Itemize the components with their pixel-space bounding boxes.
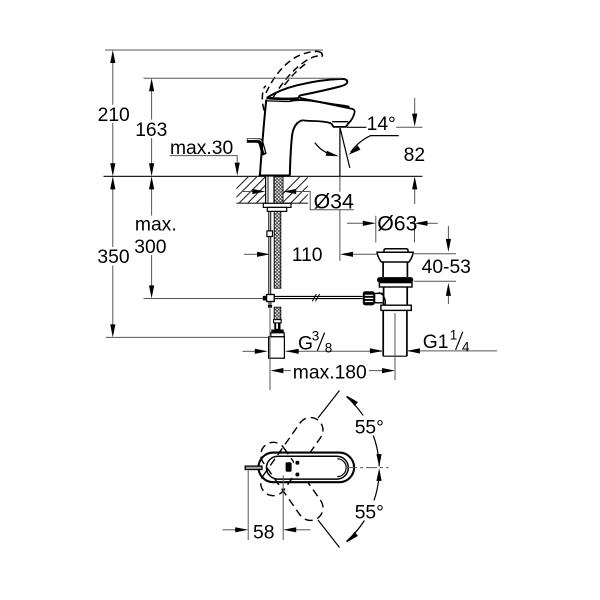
spout top edge xyxy=(290,100,351,109)
handle plan outline (solid, white fill) xyxy=(259,453,355,483)
extension line top of raised handle (210) xyxy=(105,49,323,51)
hose nut white xyxy=(271,333,284,337)
inner right cap second line xyxy=(337,459,346,477)
pop-up actuator bracket behind faucet xyxy=(247,138,267,155)
drain ball-joint stem xyxy=(375,293,384,302)
svg-text:55°: 55° xyxy=(355,418,384,439)
braided flex hose upper xyxy=(274,211,281,288)
dim 40-53 extension lines xyxy=(413,254,456,282)
drain pop-up waste: top cap xyxy=(384,249,408,252)
hose fitting dark section xyxy=(274,323,280,330)
svg-text:350: 350 xyxy=(97,247,129,268)
dashed handle swung down 55deg xyxy=(256,437,328,525)
water stream vertical reference line xyxy=(339,128,341,176)
extension line aerator level xyxy=(396,126,423,128)
spout underside xyxy=(302,120,331,123)
pop-up rod vertical xyxy=(269,211,271,295)
dashed handle swung up 55deg xyxy=(256,413,328,501)
55deg arc lower xyxy=(346,472,379,542)
handle plan inner outline xyxy=(266,456,348,479)
svg-text:55°: 55° xyxy=(355,503,384,524)
dim 210 line xyxy=(112,62,114,164)
faucet body left edge xyxy=(260,100,266,176)
threaded shank (cross-hatched) through counter xyxy=(274,176,283,204)
drain body walls xyxy=(384,287,408,305)
pop-up rod stem (plan) xyxy=(245,466,262,469)
faucet body right edge xyxy=(290,120,303,175)
G3/8 threaded end xyxy=(269,337,285,358)
hose fitting white band xyxy=(274,320,282,323)
dim 40-53 arrows xyxy=(447,226,449,239)
dim 82: lower arrow xyxy=(414,189,416,204)
linkage junction block xyxy=(267,295,275,302)
counter top line xyxy=(104,175,423,177)
dim 350 line xyxy=(112,188,114,326)
drain neck walls xyxy=(383,262,407,277)
svg-text:58: 58 xyxy=(253,522,274,543)
extension line top of handle (163) xyxy=(144,77,342,79)
counter bottom line xyxy=(237,202,308,204)
lever handle raised (dashed) xyxy=(262,51,322,110)
svg-text:110: 110 xyxy=(292,245,323,266)
horizontal linkage rod xyxy=(264,296,363,298)
svg-text:82: 82 xyxy=(404,145,425,166)
label 55deg lower xyxy=(353,501,389,521)
dim Ø63 arrows xyxy=(347,222,363,224)
dim 82: upper arrow xyxy=(414,98,416,114)
svg-text:max.180: max.180 xyxy=(293,362,367,383)
label 55deg upper xyxy=(353,416,389,436)
dim 110 arrows xyxy=(244,253,257,255)
lever handle (solid, closed position) xyxy=(267,79,349,107)
water stream line below counter (extension) xyxy=(339,176,341,260)
braided flex hose lower xyxy=(274,307,281,319)
svg-text:Ø63: Ø63 xyxy=(377,211,417,235)
svg-text:163: 163 xyxy=(135,120,167,141)
counter cross-section hatching xyxy=(220,175,336,205)
handle slot mark (black) xyxy=(286,462,292,472)
rod break ticks xyxy=(312,294,319,301)
svg-text:max.: max. xyxy=(135,214,177,235)
shared thread dimension line G3/8 G1 1/4 xyxy=(243,350,256,352)
svg-text:1: 1 xyxy=(450,328,458,343)
faucet centerline extension (max.180 left) xyxy=(269,306,271,390)
label Ø34 xyxy=(313,192,354,209)
svg-text:14°: 14° xyxy=(367,114,396,135)
pop-up rod coupling nub xyxy=(267,231,273,237)
55deg ray upper xyxy=(318,391,340,419)
extension line at G3/8 level (350 bottom) xyxy=(106,336,269,338)
indicator dots xyxy=(295,461,299,465)
drain collar xyxy=(381,305,411,310)
14deg leader from label with arrow xyxy=(351,136,399,153)
aerator xyxy=(331,123,348,127)
faucet base xyxy=(259,174,291,176)
dim 58 arrows xyxy=(223,529,236,531)
leader from aerator to 14deg label xyxy=(347,126,366,128)
faucet silhouette (white fill) xyxy=(260,79,355,176)
drain flange xyxy=(377,252,413,262)
dim max.300 line xyxy=(151,188,153,287)
svg-text:Ø34: Ø34 xyxy=(314,189,354,213)
svg-text:3: 3 xyxy=(312,329,320,344)
shank tube (white) xyxy=(266,176,274,204)
mounting washer under counter xyxy=(263,203,291,207)
dim 58 extension lines xyxy=(248,470,283,540)
dim Ø34 leader and arrows xyxy=(243,191,253,193)
linkage extension line to left xyxy=(144,298,265,300)
svg-text:40-53: 40-53 xyxy=(422,257,471,278)
water stream 14-degree slanted line xyxy=(340,128,350,168)
drain rubber seal (black) xyxy=(377,277,413,283)
drain pipe centerline extension xyxy=(394,313,396,380)
spout tip right edge xyxy=(348,109,354,124)
drain knob (knurled) xyxy=(363,291,375,305)
svg-text:G1: G1 xyxy=(423,332,449,353)
svg-text:G: G xyxy=(298,333,313,354)
svg-text:8: 8 xyxy=(325,340,333,355)
hose nut dark band xyxy=(271,330,283,333)
dim 163 line xyxy=(151,90,153,164)
drain tailpipe xyxy=(383,310,407,356)
rod lower stub xyxy=(269,302,271,306)
mounting nut step xyxy=(267,207,286,211)
dim max.180 xyxy=(270,368,283,373)
drain lower lip xyxy=(379,283,412,287)
drain ball socket arc xyxy=(379,292,386,304)
handle-body joint dark line xyxy=(267,98,300,99)
svg-text:4: 4 xyxy=(462,340,470,355)
14deg left arc with arrow xyxy=(315,143,335,156)
horizontal centerline right xyxy=(346,467,389,469)
svg-text:210: 210 xyxy=(98,105,130,126)
55deg ray lower xyxy=(318,520,340,548)
55deg arc upper xyxy=(346,397,379,467)
dim Ø63 extension lines xyxy=(376,216,415,243)
svg-text:300: 300 xyxy=(134,237,166,258)
